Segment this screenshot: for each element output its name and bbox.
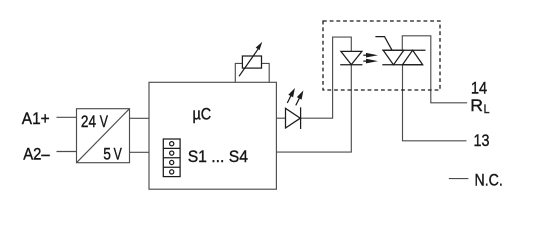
svg-text:V: V: [100, 112, 109, 131]
svg-text:13: 13: [474, 131, 490, 150]
svg-text:S1 ... S4: S1 ... S4: [188, 147, 248, 166]
svg-text:5: 5: [103, 145, 111, 164]
svg-text:L: L: [484, 102, 490, 116]
svg-text:µC: µC: [193, 105, 212, 124]
svg-text:V: V: [114, 145, 123, 164]
svg-text:24: 24: [81, 112, 96, 131]
svg-text:14: 14: [471, 78, 487, 97]
svg-text:N.C.: N.C.: [475, 170, 503, 189]
svg-text:A2–: A2–: [23, 144, 50, 163]
svg-text:R: R: [470, 96, 483, 115]
svg-text:A1+: A1+: [22, 109, 50, 128]
